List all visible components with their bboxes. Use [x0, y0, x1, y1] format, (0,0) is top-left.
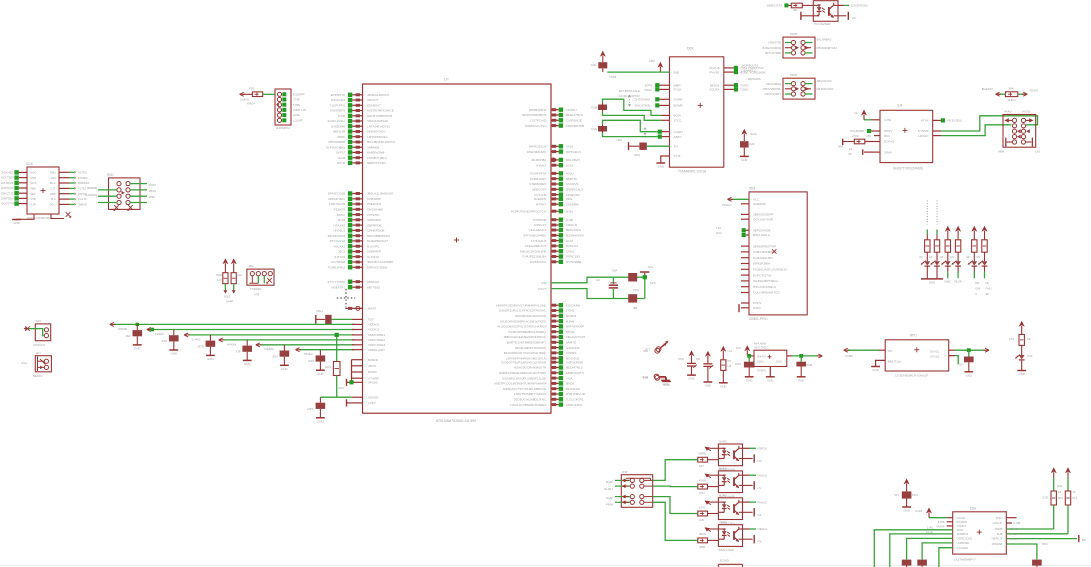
- svg-text:6VMS68P: 6VMS68P: [367, 197, 381, 201]
- svg-text:2OJFLJOOA: 2OJFLJOOA: [327, 119, 346, 123]
- svg-text:3L6: 3L6: [51, 197, 56, 201]
- arrow on R1 wire: [240, 92, 244, 96]
- U2 left input pins: [618, 83, 683, 108]
- svg-text:OESLA: OESLA: [758, 527, 768, 531]
- wire C3 bottom to U2: [603, 133, 683, 139]
- svg-text:XV: XV: [852, 16, 856, 20]
- svg-text:V671TKEC: V671TKEC: [754, 346, 768, 350]
- svg-text:GJVAMU: GJVAMU: [85, 193, 97, 197]
- U6 vcc pin wire: [929, 517, 953, 519]
- capacitor C1 with VCC: [590, 52, 616, 80]
- svg-text:NLR1J: NLR1J: [604, 487, 613, 491]
- IC U3 box: [880, 110, 933, 162]
- svg-text:P8PPB4UDB: P8PPB4UDB: [566, 124, 584, 128]
- svg-text:37CC: 37CC: [674, 119, 683, 123]
- svg-text:FRSC: FRSC: [337, 213, 346, 217]
- OK5 emitter plate: [743, 535, 762, 544]
- XB1 uart pins: [741, 213, 774, 222]
- capacitor C4 horizontal: [616, 138, 677, 157]
- svg-text:T31: T31: [716, 226, 721, 230]
- resistor R8: [698, 457, 719, 468]
- svg-text:18HH9788UFJ: 18HH9788UFJ: [367, 135, 388, 139]
- OK5 output stub: [743, 527, 768, 531]
- svg-text:5RTNFAKRP: 5RTNFAKRP: [566, 325, 584, 329]
- svg-text:FDX: FDX: [912, 493, 918, 497]
- svg-text:X7PMS: X7PMS: [566, 351, 577, 355]
- DCDC input junction and cap C32: [735, 354, 754, 377]
- ground: [745, 376, 754, 378]
- U1 right pins group 11: [496, 303, 585, 360]
- svg-text:6HB: 6HB: [997, 532, 1003, 536]
- ground: [661, 379, 670, 381]
- junction on VDDIO2 wire: [150, 328, 154, 332]
- svg-text:KA963: KA963: [155, 332, 164, 336]
- U1 right pins group 7: [511, 209, 574, 213]
- svg-text:I9MC: I9MC: [944, 280, 951, 284]
- svg-text:0VO1I1: 0VO1I1: [930, 355, 940, 359]
- svg-text:94FRO51O9: 94FRO51O9: [529, 145, 547, 149]
- svg-text:HERLJT: HERLJT: [992, 537, 1003, 541]
- U4 gnd pin: [876, 360, 886, 366]
- svg-text:CSH79SHHH: CSH79SHHH: [632, 98, 650, 102]
- resistor RP1: [223, 259, 228, 294]
- OK3 output stub: [743, 473, 768, 477]
- ground: [243, 360, 252, 366]
- jumper J2 labels: [763, 73, 834, 96]
- svg-text:SP6: SP6: [650, 281, 656, 285]
- svg-text:OLC: OLC: [50, 203, 56, 207]
- svg-text:4LUEUD8A257F6LOGROCHXRDS: 4LUEUD8A257F6LOGROCHXRDS: [497, 325, 546, 329]
- svg-text:K1P: K1P: [31, 203, 36, 207]
- svg-text:XD9S1I: XD9S1I: [566, 108, 577, 112]
- svg-text:G6I: G6I: [51, 176, 56, 180]
- svg-text:DCA: DCA: [26, 162, 34, 166]
- arrow on DCDC output: [818, 354, 822, 358]
- jumper J2 box: [783, 78, 815, 99]
- ground: [1017, 370, 1026, 372]
- IC U4 box: [885, 340, 949, 371]
- U6 right stub pins: [1006, 518, 1020, 526]
- svg-text:V41LUENC9: V41LUENC9: [529, 228, 547, 232]
- U3 enable pin: [851, 129, 894, 133]
- optocoupler OK2: [718, 440, 742, 472]
- resistor R7 at OK1: [784, 3, 813, 12]
- OK5 input arrow: [699, 527, 718, 536]
- svg-text:MFLU0705E: MFLU0705E: [765, 51, 781, 55]
- LED D5 chain: [966, 227, 977, 279]
- ground: [169, 350, 178, 356]
- capacitor C43: [1032, 560, 1042, 567]
- svg-text:S8RM06: S8RM06: [367, 145, 379, 149]
- svg-text:D16GR31R21J1XF6OLDTRUVAC: D16GR31R21J1XF6OLDTRUVAC: [499, 309, 547, 313]
- svg-text:FBJNJF0150: FBJNJF0150: [817, 87, 834, 91]
- svg-text:1X: 1X: [1072, 490, 1076, 494]
- svg-text:6IR61P3NIH: 6IR61P3NIH: [753, 262, 770, 266]
- svg-text:SGD: SGD: [198, 344, 204, 348]
- svg-text:SGE0M6: SGE0M6: [753, 202, 766, 206]
- svg-text:GND: GND: [798, 378, 804, 382]
- wire JP6 to OK2: [653, 460, 698, 481]
- ground: [964, 371, 973, 373]
- wire VDDCORE1 net: [184, 333, 385, 341]
- svg-text:AU3G: AU3G: [1022, 110, 1031, 114]
- svg-text:FBD: FBD: [31, 187, 37, 191]
- svg-text:C68M: C68M: [845, 354, 853, 358]
- svg-text:3DOCIT: 3DOCIT: [367, 98, 378, 102]
- svg-text:LOLMF: LOLMF: [293, 118, 303, 122]
- svg-text:GND: GND: [746, 378, 752, 382]
- RN1 ground pin: [17, 214, 35, 219]
- svg-text:109C: 109C: [996, 516, 1003, 520]
- svg-text:SS1RRM: SS1RRM: [566, 202, 579, 206]
- ground: [719, 382, 728, 384]
- svg-text:05: 05: [940, 255, 944, 259]
- net marker arrows: [628, 95, 646, 136]
- svg-text:I47PHT: I47PHT: [536, 202, 547, 206]
- svg-text:PPA: PPA: [678, 357, 684, 361]
- LED D7 chain: [1009, 322, 1033, 371]
- svg-text:FNH: FNH: [633, 288, 639, 292]
- svg-text:HJKG: HJKG: [1008, 98, 1016, 102]
- svg-text:BB3JT1LK: BB3JT1LK: [888, 360, 902, 364]
- U3 VIN pin with VCC: [854, 110, 891, 122]
- resistor R11: [698, 538, 719, 549]
- jumper J1 labels: [762, 32, 837, 55]
- svg-text:24C3D1X3PX5V: 24C3D1X3PX5V: [618, 94, 640, 98]
- svg-text:R9U: R9U: [884, 134, 890, 138]
- svg-text:D074I: D074I: [337, 161, 345, 165]
- svg-text:L3: L3: [1058, 490, 1062, 494]
- svg-text:39FK63SI5S40: 39FK63SI5S40: [367, 119, 388, 123]
- JP3 nc cross: [25, 326, 30, 331]
- svg-text:RLKP: RLKP: [954, 280, 961, 284]
- svg-text:G0VHC: G0VHC: [993, 521, 1003, 525]
- svg-text:ABVVD4XK: ABVVD4XK: [817, 79, 832, 83]
- resistor R? in vertical net: [325, 333, 340, 397]
- svg-text:89AE376PG: 89AE376PG: [566, 113, 584, 117]
- test point circle TP2: [642, 374, 665, 380]
- svg-text:EI051F6CC: EI051F6CC: [530, 260, 547, 264]
- ground: [656, 162, 665, 164]
- svg-text:BRCABM8P6G5: BRCABM8P6G5: [367, 234, 390, 238]
- svg-text:ORTG9LO: ORTG9LO: [566, 150, 581, 154]
- svg-text:II: II: [976, 292, 978, 296]
- OK1 emitter plate: [838, 12, 856, 20]
- svg-text:A5PC: A5PC: [674, 135, 683, 139]
- svg-text:CSS: CSS: [591, 127, 597, 131]
- OK2 emitter plate: [743, 454, 762, 463]
- svg-text:DK: DK: [986, 281, 990, 285]
- svg-text:VDDIO2: VDDIO2: [368, 328, 380, 332]
- optocoupler OK4: [718, 493, 742, 525]
- ground: [316, 370, 325, 376]
- svg-text:GEJS3RAD069PKACDB3LPKDG: GEJS3RAD069PKACDB3LPKDG: [500, 319, 547, 323]
- svg-text:XIN: XIN: [541, 281, 546, 285]
- svg-text:LKB0: LKB0: [606, 496, 613, 500]
- svg-text:46IT9: 46IT9: [368, 364, 376, 368]
- U6 stub pins: [936, 520, 952, 528]
- svg-text:D2FKO3: D2FKO3: [566, 244, 578, 248]
- U1 right pins group 9: [523, 228, 584, 248]
- svg-text:V5M: V5M: [591, 106, 598, 110]
- ground: [12, 219, 21, 221]
- IC U2 box: [670, 57, 724, 167]
- OK4 input arrow: [699, 500, 719, 509]
- svg-text:V2D: V2D: [590, 63, 596, 67]
- capacitor C12: [198, 335, 216, 355]
- svg-text:JJG7FCAIO: JJG7FCAIO: [530, 119, 547, 123]
- U6 right wires: [1006, 527, 1086, 559]
- svg-text:A7MCKO: A7MCKO: [33, 343, 46, 347]
- svg-text:8A80FH2M8: 8A80FH2M8: [367, 151, 385, 155]
- svg-text:OCKLVA7U4R: OCKLVA7U4R: [753, 217, 774, 221]
- header SV1 box: [1003, 115, 1036, 148]
- svg-text:S44P: S44P: [226, 300, 233, 304]
- connector JP6 labels: [604, 470, 628, 507]
- capacitor C10: [126, 323, 142, 345]
- svg-text:F1BX76: F1BX76: [334, 208, 345, 212]
- svg-text:GND: GND: [705, 384, 711, 388]
- U3 vcc pin stub: [866, 134, 891, 138]
- connector JP6 box: [615, 475, 653, 508]
- svg-text:VHXAV: VHXAV: [227, 342, 237, 346]
- svg-text:I4GA: I4GA: [750, 132, 757, 136]
- svg-text:OFXV: OFXV: [884, 129, 893, 133]
- svg-text:XI6ATL15: XI6ATL15: [293, 108, 306, 112]
- svg-text:2R59I9LAUJ: 2R59I9LAUJ: [566, 188, 584, 192]
- svg-text:1JRI7OG39: 1JRI7OG39: [329, 202, 346, 206]
- wire C2 bottom to U2: [603, 112, 683, 123]
- svg-text:X3XC: X3XC: [699, 505, 706, 509]
- svg-text:GND: GND: [767, 378, 773, 382]
- svg-text:H7AX4S: H7AX4S: [333, 223, 345, 227]
- capacitor C13: [236, 340, 252, 360]
- svg-text:P5ENUHJ: P5ENUHJ: [367, 202, 382, 206]
- DCDC output wire: [787, 355, 818, 357]
- svg-text:LRTAJ41VID733: LRTAJ41VID733: [367, 124, 390, 128]
- ground: [687, 374, 696, 376]
- svg-text:RS: RS: [758, 540, 762, 544]
- svg-text:1KJ0: 1KJ0: [566, 239, 573, 243]
- svg-text:19NC: 19NC: [757, 360, 764, 364]
- U4 aux pin stub: [949, 356, 959, 364]
- svg-text:GND: GND: [872, 368, 878, 372]
- svg-text:EM8OJ047TI: EM8OJ047TI: [566, 371, 584, 375]
- svg-text:JBS: JBS: [248, 264, 254, 268]
- svg-text:FOLK: FOLK: [674, 88, 683, 92]
- svg-text:VDDCORE3: VDDCORE3: [368, 343, 385, 347]
- U1 right pins group 8: [532, 218, 577, 228]
- JP2 left wires: [98, 190, 117, 203]
- arrows on R3 wires: [996, 92, 1028, 96]
- svg-text:GND: GND: [317, 372, 323, 376]
- svg-text:RS5: RS5: [31, 176, 37, 180]
- U4 output wire: [949, 349, 986, 351]
- U1 right pins group 3: [531, 158, 580, 168]
- svg-text:4DJ3DNBJ: 4DJ3DNBJ: [531, 158, 547, 162]
- svg-text:KVM2XP288AB5OUN3EKJ: KVM2XP288AB5OUN3EKJ: [508, 330, 546, 334]
- svg-text:ABM: ABM: [998, 150, 1005, 154]
- svg-text:FKKIBJ7J80JI: FKKIBJ7J80JI: [367, 156, 387, 160]
- svg-text:JRS6AB: JRS6AB: [992, 542, 1003, 546]
- svg-text:PFI: PFI: [888, 349, 893, 353]
- svg-text:3G83DME: 3G83DME: [331, 124, 345, 128]
- pull-up labels: [216, 273, 243, 304]
- svg-text:GND: GND: [244, 362, 250, 366]
- svg-text:BP: BP: [1082, 538, 1086, 542]
- svg-text:317KIADJ3: 317KIADJ3: [531, 239, 547, 243]
- svg-text:B3NFD: B3NFD: [368, 358, 379, 362]
- svg-text:HFR: HFR: [50, 192, 56, 196]
- svg-text:06E: 06E: [674, 70, 680, 74]
- svg-text:HX2: HX2: [716, 231, 722, 235]
- svg-text:UIJ: UIJ: [728, 349, 733, 353]
- U1 right pins group 6: [534, 197, 579, 207]
- XB1 io pins with squares: [742, 228, 771, 237]
- ground: [133, 345, 142, 351]
- ground: [662, 380, 671, 382]
- svg-text:6X: 6X: [848, 152, 852, 156]
- svg-text:TH: TH: [674, 144, 678, 148]
- svg-text:MO6F: MO6F: [936, 524, 944, 528]
- svg-text:06A: 06A: [838, 145, 843, 149]
- svg-text:5AMTD: 5AMTD: [566, 341, 577, 345]
- capacitor C21: [628, 273, 639, 292]
- svg-text:JM4: JM4: [1008, 86, 1014, 90]
- wire C2 top to U2: [603, 99, 681, 117]
- svg-text:NBRNTPVR4: NBRNTPVR4: [367, 161, 386, 165]
- svg-text:GND: GND: [281, 367, 287, 371]
- svg-text:D260: D260: [741, 88, 749, 92]
- svg-text:0OS2R5L8AS0PUV895F1JU2D: 0OS2R5L8AS0PUV895F1JU2D: [502, 376, 547, 380]
- svg-text:NNEFJR1: NNEFJR1: [331, 285, 345, 289]
- ground: [871, 366, 880, 368]
- jumper JP4 box: [22, 351, 52, 378]
- LED D2 chain: [929, 201, 940, 279]
- svg-text:TXKR9G: TXKR9G: [250, 287, 262, 291]
- svg-text:DDL36VH: DDL36VH: [566, 158, 580, 162]
- header JP5 box: [247, 269, 274, 285]
- svg-text:LDG0C: LDG0C: [918, 134, 929, 138]
- RN1 left pins: [1, 170, 27, 206]
- svg-text:TST: TST: [368, 318, 374, 322]
- header SV1 labels: [998, 110, 1040, 154]
- svg-text:D4X: D4X: [1027, 354, 1033, 358]
- resistor R2 at U3: [838, 134, 895, 149]
- svg-text:5GERFN: 5GERFN: [534, 197, 547, 201]
- wire JP6 to OK5: [653, 502, 698, 540]
- header JP5 labels: [248, 264, 262, 297]
- svg-text:027: 027: [699, 464, 704, 468]
- capacitor C22: [628, 294, 637, 310]
- svg-text:O6X65I: O6X65I: [368, 395, 379, 399]
- svg-text:U0K: U0K: [616, 138, 622, 142]
- svg-text:AEBOG87: AEBOG87: [532, 188, 547, 192]
- svg-text:1SIRA8G1J: 1SIRA8G1J: [741, 69, 757, 73]
- arrow on U4 output: [985, 348, 989, 352]
- svg-text:JB6LAJLJ8HDV8G: JB6LAJLJ8HDV8G: [367, 192, 394, 196]
- ground: [316, 417, 325, 419]
- svg-text:VCC: VCC: [753, 198, 760, 202]
- jumper JP2 box: [109, 178, 141, 210]
- U4 input wire: [845, 350, 885, 358]
- XB1 pin 2: [741, 202, 766, 206]
- svg-text:8O61: 8O61: [566, 209, 574, 213]
- svg-text:A79FX: A79FX: [757, 369, 766, 373]
- svg-text:S90F92M: S90F92M: [1, 197, 14, 201]
- svg-text:UL: UL: [854, 111, 858, 115]
- wire VDDCORE3 net: [256, 343, 386, 351]
- U1 PLL bracket pins: [352, 358, 380, 382]
- wire U3 SDA to header: [918, 125, 1011, 138]
- resistor RP2: [231, 259, 236, 294]
- svg-text:F7J6: F7J6: [674, 154, 681, 158]
- svg-text:4LVA29GCRNKM0G7N: 4LVA29GCRNKM0G7N: [514, 366, 546, 370]
- JP2 nc crosses: [113, 205, 133, 211]
- capacitor C11: [162, 330, 179, 350]
- XB1 VCC pin wire: [722, 198, 760, 208]
- svg-text:R0D: R0D: [107, 173, 114, 177]
- svg-text:CUIR5HGE: CUIR5HGE: [566, 119, 582, 123]
- svg-text:CVH2: CVH2: [566, 249, 575, 253]
- svg-text:6G2: 6G2: [22, 361, 28, 365]
- svg-text:B7P6: B7P6: [645, 84, 652, 88]
- svg-text:GND: GND: [13, 221, 19, 225]
- svg-text:RPD: RPD: [910, 334, 917, 338]
- svg-text:71UPLPFU: 71UPLPFU: [330, 104, 346, 108]
- svg-text:HTX4: HTX4: [921, 119, 929, 123]
- svg-text:DIAER5KDF2T: DIAER5KDF2T: [367, 239, 388, 243]
- svg-text:I89D8: I89D8: [566, 382, 575, 386]
- svg-text:M15RPP: M15RPP: [293, 92, 305, 96]
- svg-text:K10N32NU8N: K10N32NU8N: [753, 256, 773, 260]
- svg-text:H0P: H0P: [649, 59, 655, 63]
- svg-text:L5: L5: [758, 486, 762, 490]
- svg-text:DPMSCG6B: DPMSCG6B: [328, 192, 345, 196]
- svg-text:TR1E3: TR1E3: [304, 352, 313, 356]
- LED D4 chain: [950, 227, 961, 279]
- svg-text:2J84GF8NJ: 2J84GF8NJ: [566, 403, 583, 407]
- svg-text:BOI4: BOI4: [674, 114, 681, 118]
- U1 left pins group B (PA port): [327, 191, 393, 269]
- svg-text:5XF37: 5XF37: [336, 151, 345, 155]
- svg-text:TCMEJXRUI: TCMEJXRUI: [327, 266, 345, 270]
- svg-text:MAE4: MAE4: [247, 102, 255, 106]
- svg-text:9NK8: 9NK8: [719, 466, 727, 470]
- svg-text:VA0: VA0: [643, 349, 649, 353]
- LED array net labels: [944, 280, 991, 297]
- svg-text:RA7EFE8: RA7EFE8: [331, 260, 345, 264]
- ground: [704, 381, 713, 383]
- svg-text:270C: 270C: [852, 134, 859, 138]
- svg-text:FTR: FTR: [643, 376, 648, 380]
- U1 left pin NRST with inversion circle: [345, 306, 376, 310]
- svg-text:EN9: EN9: [325, 365, 331, 369]
- svg-text:O5: O5: [758, 513, 762, 517]
- svg-text:MJ4M: MJ4M: [566, 319, 575, 323]
- svg-text:EUFOTI3T03: EUFOTI3T03: [753, 273, 772, 277]
- svg-text:6SXTSDX: 6SXTSDX: [1, 176, 14, 180]
- svg-text:KGAFSF04: KGAFSF04: [530, 172, 546, 176]
- crystal Q1: [596, 269, 618, 299]
- svg-text:KXML7: KXML7: [536, 163, 546, 167]
- jumper JP3 box: [26, 319, 51, 341]
- svg-text:5J3: 5J3: [894, 493, 899, 497]
- RN1 inside pin labels: [31, 170, 56, 206]
- svg-text:CULO9R50AHTCD: CULO9R50AHTCD: [753, 291, 780, 295]
- svg-text:GBD: GBD: [699, 545, 705, 549]
- svg-text:6G8V: 6G8V: [149, 183, 156, 187]
